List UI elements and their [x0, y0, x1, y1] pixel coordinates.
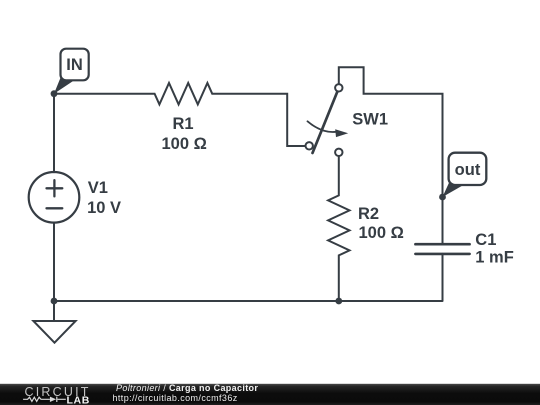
svg-text:R1: R1 [173, 115, 194, 133]
svg-text:100 Ω: 100 Ω [359, 224, 404, 242]
svg-text:SW1: SW1 [352, 111, 388, 129]
svg-text:Poltronieri / Carga no Capacit: Poltronieri / Carga no Capacitor [116, 383, 258, 393]
svg-text:out: out [455, 161, 481, 179]
svg-text:LAB: LAB [67, 394, 90, 405]
svg-text:10 V: 10 V [87, 199, 121, 217]
svg-text:1 mF: 1 mF [475, 249, 514, 267]
svg-text:100 Ω: 100 Ω [162, 135, 207, 153]
svg-text:http://circuitlab.com/ccmf36z: http://circuitlab.com/ccmf36z [113, 393, 238, 403]
svg-text:R2: R2 [358, 205, 379, 223]
svg-text:C1: C1 [475, 231, 496, 249]
svg-text:IN: IN [66, 56, 83, 74]
svg-text:V1: V1 [88, 179, 108, 197]
